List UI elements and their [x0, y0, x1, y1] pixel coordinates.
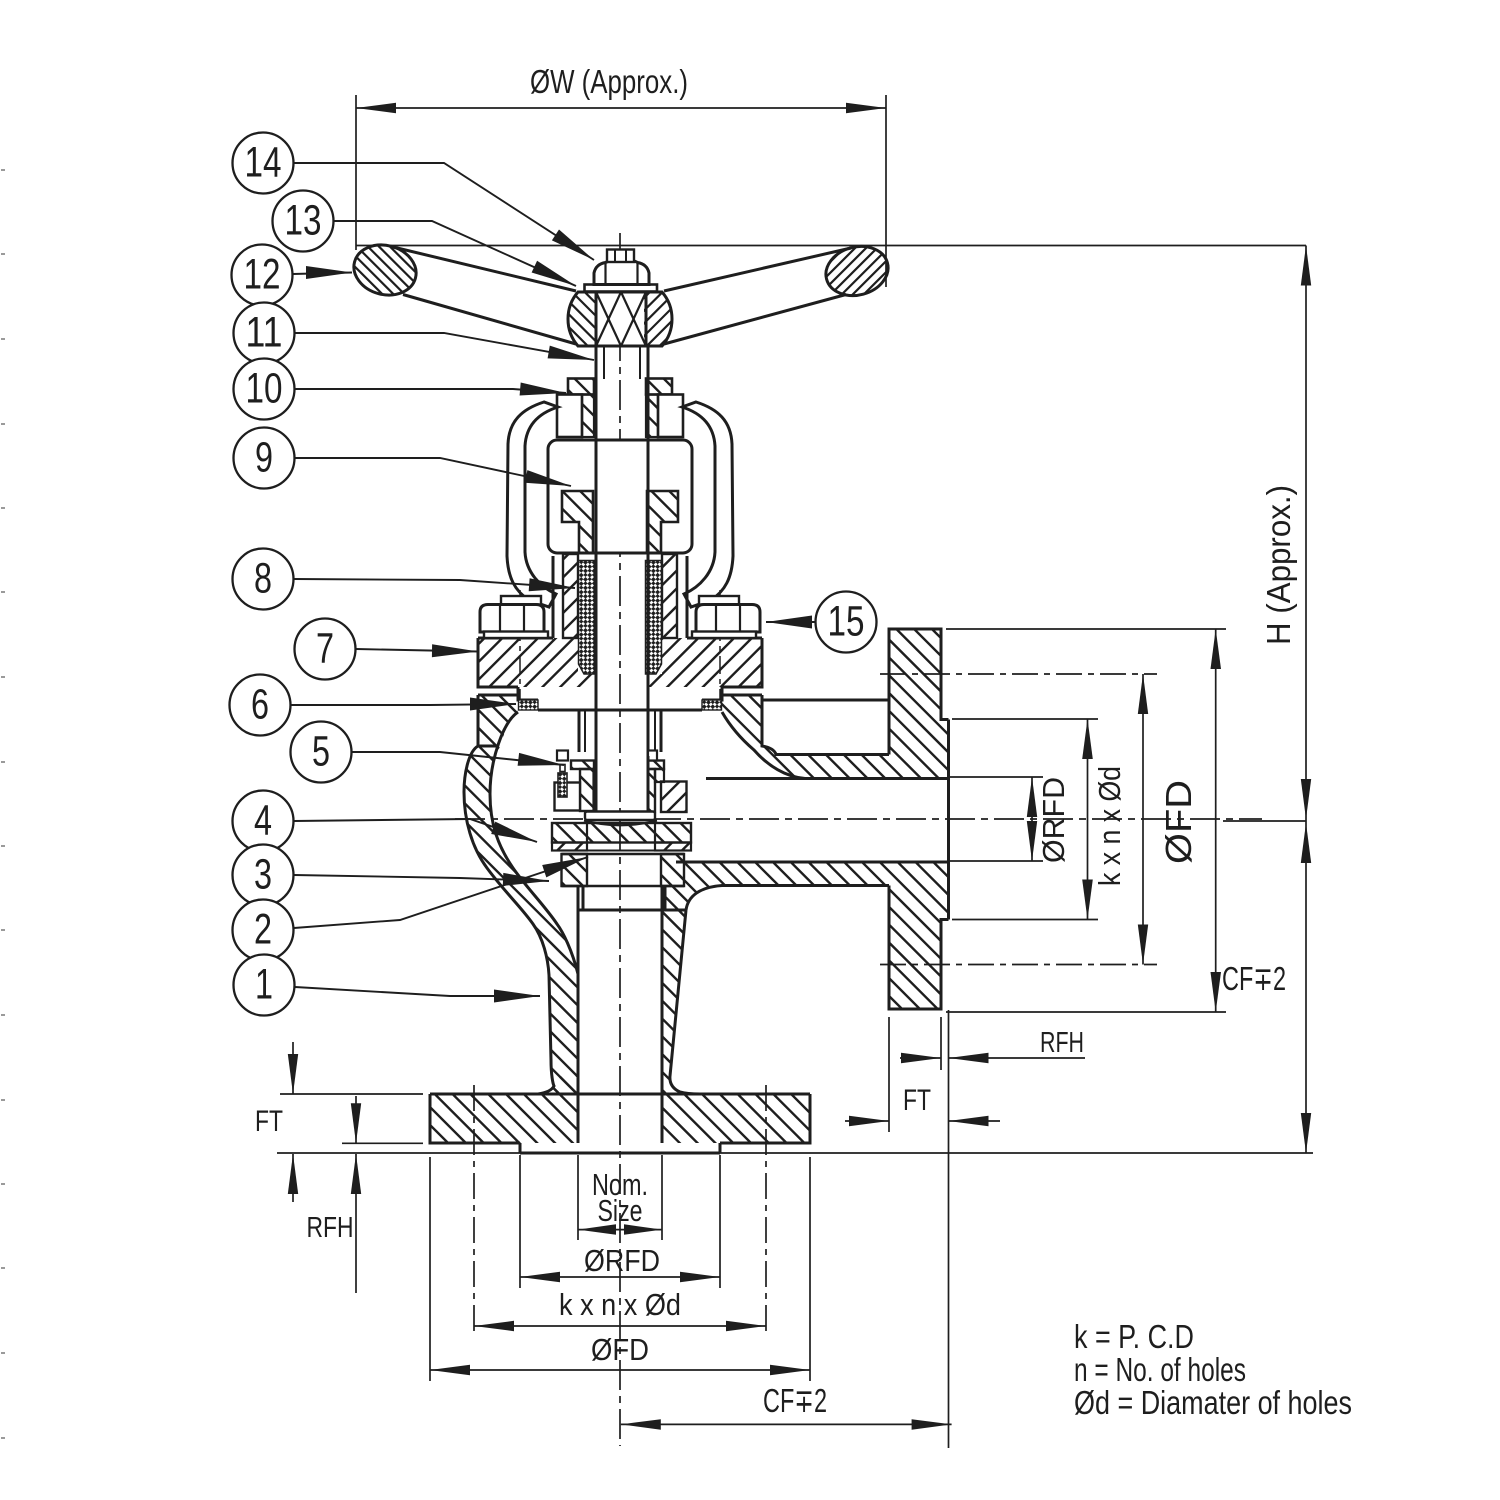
leader item 15: [766, 621, 815, 623]
svg-text:6: 6: [251, 681, 269, 729]
dimension RFH left: [307, 1096, 424, 1293]
gland bolt collar right: [699, 596, 739, 605]
dimension CF/2 right vertical: [1222, 819, 1311, 1153]
leader item 8: [294, 579, 575, 588]
disc seat contact lines: [562, 851, 685, 855]
outlet upper wall and body flange right: [720, 506, 891, 944]
callout 14: [233, 133, 294, 194]
yoke bushing body: [557, 359, 683, 454]
svg-text:2: 2: [254, 906, 272, 954]
svg-text:ØFD: ØFD: [591, 1332, 649, 1367]
gland bolt centrelines: [519, 590, 521, 700]
callout 13: [273, 191, 334, 252]
gland nut right item 15 target: [696, 605, 760, 633]
callout 15: [816, 592, 877, 653]
svg-text:CF∓2: CF∓2: [1222, 960, 1286, 997]
gasket right: [702, 700, 722, 710]
legend: [1074, 1318, 1352, 1421]
svg-text:1: 1: [255, 961, 273, 1009]
svg-text:7: 7: [316, 625, 334, 673]
body flange left: [476, 636, 520, 787]
handwheel hub: [566, 248, 674, 376]
svg-text:RFH: RFH: [307, 1212, 354, 1244]
dimension CF/2 bottom: [621, 1382, 952, 1430]
bonnet neck below flange: [579, 710, 661, 752]
body neck right wall outline: [670, 910, 700, 1094]
gland bolt collar left: [501, 596, 541, 605]
handwheel left spoke: [391, 247, 576, 292]
gland nut washer left: [484, 632, 548, 639]
packing item 8: [579, 561, 662, 675]
svg-text:k = P. C.D: k = P. C.D: [1074, 1318, 1194, 1355]
dimension k x n x Od right: [880, 674, 1157, 965]
svg-text:FT: FT: [255, 1105, 283, 1138]
leader item 9: [295, 458, 571, 486]
handwheel top tangent / H extension line: [356, 245, 1306, 247]
svg-text:12: 12: [244, 251, 281, 299]
callout 2: [233, 900, 294, 961]
bonnet stuffing box walls: [553, 525, 687, 659]
dimension H approx: [1223, 246, 1311, 822]
outlet lower wall: [660, 624, 891, 1140]
right flange: [887, 548, 951, 1057]
leader item 14: [294, 163, 594, 260]
leader item 2: [294, 857, 588, 928]
leader item 3: [294, 875, 549, 881]
svg-text:k x n x Ød: k x n x Ød: [559, 1287, 681, 1322]
leader item 11: [295, 333, 594, 360]
disc lower flanges: [550, 786, 693, 879]
callout 12: [232, 245, 293, 306]
svg-text:ØRFD: ØRFD: [1036, 777, 1071, 863]
body bowl left wall outline: [464, 712, 578, 1094]
vertical stem centreline: [619, 233, 621, 1446]
dimension bore right: [948, 777, 1043, 861]
leader item 6: [291, 704, 516, 705]
dimension ORFD right: [952, 719, 1098, 920]
svg-text:ØRFD: ØRFD: [584, 1243, 660, 1278]
callout 1: [234, 955, 295, 1016]
bottom flange: [428, 909, 812, 1293]
gland nut left item: [480, 605, 544, 633]
dimension OFD right: [946, 629, 1226, 1012]
right flange face line: [947, 720, 950, 920]
svg-text:k x n x Ød: k x n x Ød: [1092, 766, 1127, 886]
callout 3: [233, 845, 294, 906]
yoke centre housing: [548, 440, 692, 553]
callout 5: [291, 722, 352, 783]
leader item 12: [293, 273, 352, 275]
bore wall left: [577, 886, 580, 1143]
svg-text:FT: FT: [903, 1084, 931, 1117]
dimension RFH right: [900, 1017, 1085, 1070]
set screw detail: [558, 765, 567, 798]
handwheel right rim end: [820, 167, 893, 370]
svg-text:Size: Size: [598, 1193, 643, 1228]
outlet bore top line: [706, 777, 949, 780]
dimension k x n x Od bottom: [474, 1085, 766, 1337]
guide ears: [557, 751, 657, 761]
dimension FT left: [255, 1042, 423, 1202]
bonnet lip: [518, 687, 722, 710]
stem bottom section: [596, 756, 648, 812]
svg-text:8: 8: [254, 555, 272, 603]
stem upper section: [596, 346, 648, 379]
svg-text:13: 13: [285, 197, 322, 245]
seat bore walls: [583, 886, 665, 910]
handwheel right spoke: [664, 248, 851, 291]
bottom flange top face: [430, 1093, 810, 1096]
pocket top edge: [762, 699, 889, 702]
stem square end: [607, 250, 634, 263]
handwheel nut item 14: [594, 259, 649, 285]
dimension Nom Size: [578, 1155, 662, 1240]
leader item 5: [352, 752, 564, 765]
handwheel washer item 13: [585, 285, 658, 292]
callout 11: [234, 303, 295, 364]
stem head plate: [585, 812, 655, 821]
handwheel left rim end: [348, 162, 422, 365]
dimension OFD bottom: [430, 1157, 810, 1381]
horizontal outlet centreline: [455, 818, 1262, 820]
leader item 13: [334, 221, 576, 286]
gland nut washer right: [692, 632, 756, 639]
callout 8: [233, 549, 294, 610]
seat ring items 2/3: [560, 809, 687, 910]
disc top arc: [584, 821, 657, 826]
svg-text:ØW (Approx.): ØW (Approx.): [530, 63, 688, 100]
callout 7: [295, 619, 356, 680]
leader item 1: [295, 987, 540, 996]
leader item 10: [295, 389, 566, 393]
svg-text:11: 11: [246, 309, 283, 357]
svg-text:4: 4: [254, 797, 272, 845]
yoke bushing plate item 10: [566, 334, 674, 424]
dimension ORFD bottom: [520, 1155, 720, 1288]
yoke left arm: [507, 402, 558, 607]
svg-text:15: 15: [828, 598, 865, 646]
svg-text:10: 10: [246, 365, 283, 413]
svg-text:ØFD: ØFD: [1158, 780, 1199, 864]
callout 6: [230, 675, 291, 736]
port shoulder line: [578, 909, 686, 912]
backseat guide flanges: [569, 729, 666, 827]
callout 9: [234, 428, 295, 489]
callout 4: [233, 791, 294, 852]
svg-text:3: 3: [254, 851, 272, 899]
bottom flange raised face: [520, 1143, 720, 1153]
gasket item 6 left: [519, 700, 539, 710]
bottom baseline: [277, 1152, 1313, 1154]
svg-text:RFH: RFH: [1040, 1027, 1084, 1059]
svg-text:14: 14: [245, 139, 282, 187]
svg-text:9: 9: [255, 434, 273, 482]
edge tick marks: [1, 170, 5, 1438]
body flange bottom lip: [478, 745, 498, 748]
bonnet flange item 7: [476, 501, 764, 807]
svg-text:5: 5: [312, 728, 330, 776]
RF face extension to CF dim: [948, 1010, 950, 1448]
dimension OW approx: [356, 63, 886, 287]
leader item 4: [294, 819, 537, 842]
dimension FT right: [845, 1010, 1000, 1448]
stem: [596, 379, 648, 756]
yoke right arm: [682, 402, 733, 607]
bore wall right: [661, 886, 664, 1143]
outlet bore bottom line: [676, 861, 949, 864]
callout 10: [234, 359, 295, 420]
svg-text:Ød = Diamater of holes: Ød = Diamater of holes: [1074, 1384, 1352, 1421]
leader item 7: [356, 649, 478, 652]
bottom flange outline: [430, 1094, 810, 1143]
disc nut left block: [555, 783, 581, 811]
svg-text:n = No. of holes: n = No. of holes: [1074, 1351, 1246, 1388]
disc item 4: [550, 675, 693, 978]
svg-text:CF∓2: CF∓2: [763, 1382, 827, 1419]
svg-text:H (Approx.): H (Approx.): [1260, 485, 1297, 645]
